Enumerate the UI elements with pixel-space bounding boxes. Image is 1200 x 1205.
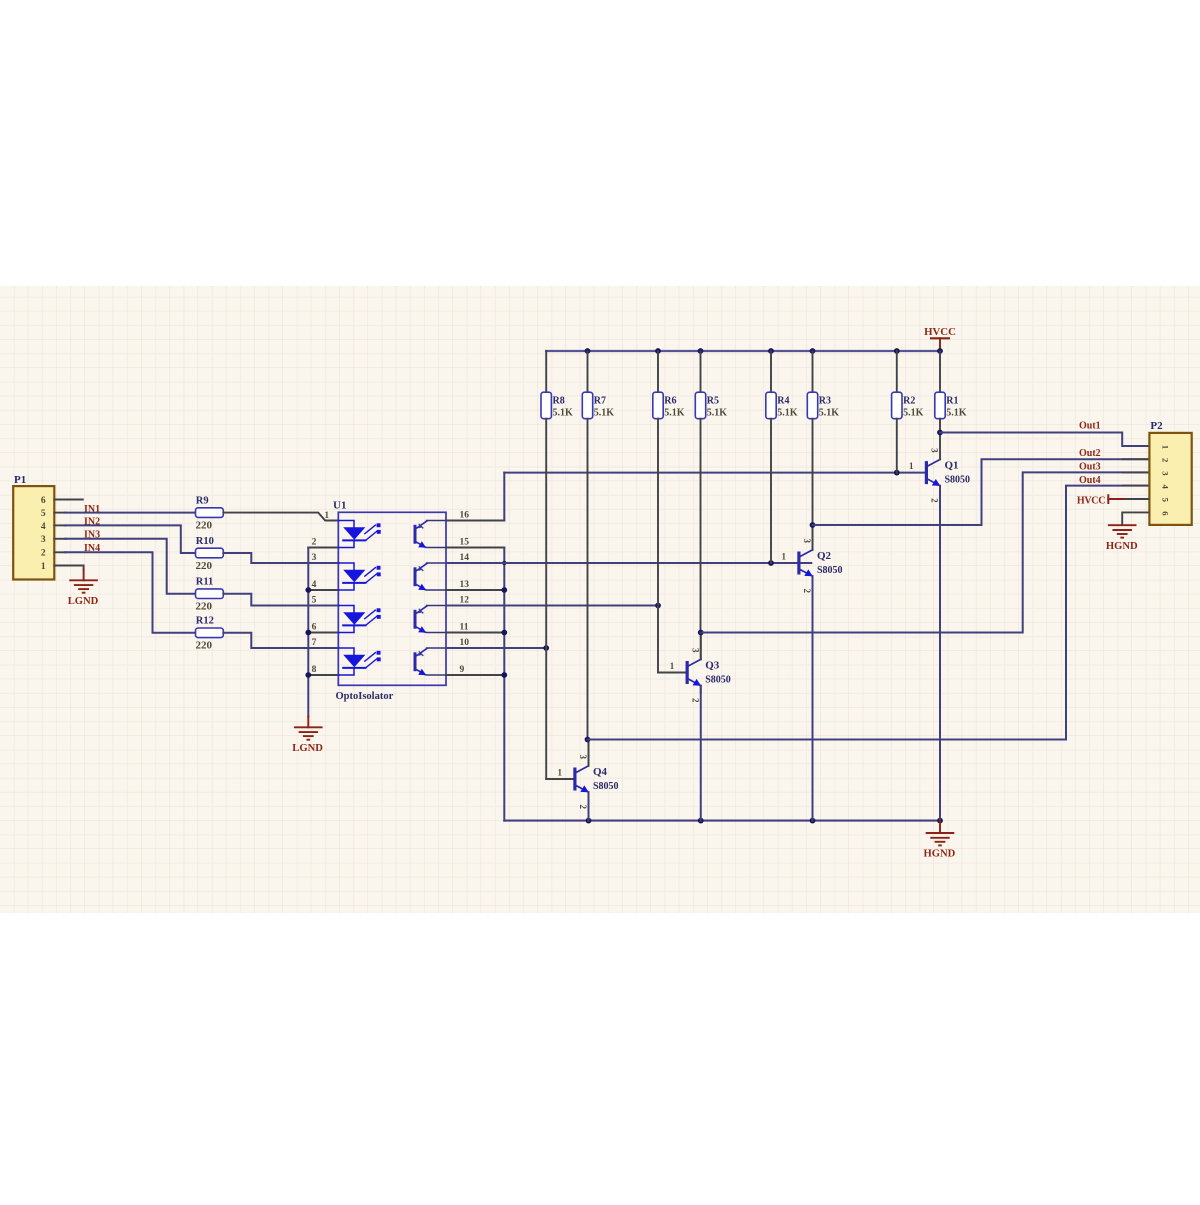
resistor R10 bbox=[196, 536, 224, 572]
wire P1 pin2 stub bbox=[54, 551, 66, 553]
wire R10 to U1 pin3 bbox=[223, 553, 338, 563]
connector P2 bbox=[1149, 420, 1191, 525]
svg-text:15: 15 bbox=[460, 537, 470, 547]
svg-text:10: 10 bbox=[460, 638, 470, 648]
wire P2 pin3 stub bbox=[1123, 471, 1148, 473]
transistor Q1 bbox=[909, 433, 970, 504]
wire R8 column bbox=[545, 419, 547, 779]
wire cathode bus bbox=[307, 548, 309, 717]
svg-text:Out4: Out4 bbox=[1079, 475, 1101, 486]
svg-text:220: 220 bbox=[196, 520, 213, 532]
wire R7 top lead bbox=[587, 351, 589, 392]
ground HGND bbox=[1106, 525, 1138, 552]
svg-text:R4: R4 bbox=[777, 396, 789, 407]
junction pin8 bbox=[305, 672, 311, 678]
svg-text:3: 3 bbox=[802, 539, 812, 544]
svg-text:5.1K: 5.1K bbox=[946, 408, 967, 419]
wire U1 pin12 stub bbox=[446, 605, 504, 607]
svg-text:S8050: S8050 bbox=[817, 565, 843, 576]
connector P1 bbox=[13, 474, 54, 580]
junction R8 row10 bbox=[543, 645, 549, 651]
opto LED channel 1 bbox=[339, 521, 381, 548]
junction rail Q4 bbox=[586, 818, 592, 824]
junction bus x700 bbox=[698, 348, 704, 354]
wire Q3 emitter bbox=[700, 686, 702, 821]
wire P1 pin6 stub bbox=[54, 499, 83, 501]
wire P1 pin4 stub bbox=[54, 524, 66, 526]
wire pin16 riser bbox=[503, 473, 505, 521]
wire IN2 bbox=[65, 525, 196, 553]
svg-text:Q4: Q4 bbox=[593, 766, 608, 778]
svg-text:1: 1 bbox=[1160, 445, 1170, 449]
junction Out4 bbox=[585, 737, 591, 743]
wire U1 pin2 stub bbox=[308, 547, 338, 549]
resistor R7 bbox=[582, 392, 614, 419]
svg-text:1: 1 bbox=[670, 661, 675, 671]
svg-text:R2: R2 bbox=[903, 396, 915, 407]
svg-text:6: 6 bbox=[1160, 511, 1170, 516]
junction bus x771 bbox=[768, 348, 774, 354]
transistor Q3 bbox=[670, 632, 731, 703]
svg-text:Q2: Q2 bbox=[817, 550, 832, 562]
junction Out2 bbox=[810, 522, 816, 528]
svg-text:1: 1 bbox=[782, 551, 787, 561]
optoisolator U1 box bbox=[333, 500, 446, 703]
wire Q1 base net bbox=[504, 472, 925, 474]
svg-text:3: 3 bbox=[41, 535, 46, 545]
wire R3 top lead bbox=[812, 351, 814, 392]
wire IN4 bbox=[65, 552, 196, 633]
wire P2 pin2 stub bbox=[1123, 458, 1148, 460]
svg-text:1: 1 bbox=[909, 461, 914, 471]
svg-text:220: 220 bbox=[196, 640, 213, 652]
wire R3 column bbox=[812, 419, 814, 525]
junction pin4 bbox=[305, 587, 311, 593]
svg-text:HGND: HGND bbox=[1106, 541, 1138, 552]
svg-text:R11: R11 bbox=[196, 577, 214, 588]
wire Out4 bbox=[588, 486, 1149, 740]
resistor R6 bbox=[653, 392, 685, 419]
svg-text:5.1K: 5.1K bbox=[819, 408, 840, 419]
junction Out3 bbox=[698, 630, 704, 636]
junction R2-Q1 base bbox=[894, 470, 900, 476]
wire P1 pin1 stub bbox=[54, 566, 83, 570]
svg-text:220: 220 bbox=[196, 601, 213, 613]
svg-text:3: 3 bbox=[690, 648, 700, 653]
svg-text:S8050: S8050 bbox=[945, 474, 971, 485]
junction rail Q2 bbox=[810, 818, 816, 824]
svg-text:8: 8 bbox=[312, 665, 317, 675]
svg-text:R6: R6 bbox=[664, 396, 676, 407]
svg-text:3: 3 bbox=[930, 448, 940, 453]
wire U1 pin10 stub bbox=[446, 647, 504, 649]
opto LED channel 2 bbox=[339, 563, 381, 590]
svg-text:LGND: LGND bbox=[68, 596, 99, 607]
wire P1 pin3 stub bbox=[54, 538, 66, 540]
wire R6 column bbox=[657, 419, 659, 673]
svg-text:4: 4 bbox=[41, 522, 46, 532]
svg-text:OptoIsolator: OptoIsolator bbox=[336, 691, 394, 702]
svg-text:5.1K: 5.1K bbox=[903, 408, 924, 419]
svg-text:2: 2 bbox=[312, 537, 317, 547]
wire U1 pin6 stub bbox=[308, 632, 338, 634]
svg-text:Out2: Out2 bbox=[1079, 448, 1101, 459]
svg-text:P2: P2 bbox=[1150, 420, 1163, 432]
svg-text:4: 4 bbox=[1160, 484, 1170, 489]
svg-text:14: 14 bbox=[460, 553, 470, 563]
svg-text:3: 3 bbox=[312, 553, 317, 563]
svg-text:220: 220 bbox=[196, 560, 213, 572]
svg-text:5.1K: 5.1K bbox=[707, 408, 728, 419]
svg-text:3: 3 bbox=[1160, 471, 1170, 475]
opto phototransistor channel 2 bbox=[414, 563, 446, 590]
svg-text:4: 4 bbox=[312, 580, 317, 590]
svg-text:HVCC: HVCC bbox=[924, 326, 956, 338]
opto phototransistor channel 1 bbox=[414, 521, 446, 548]
svg-text:13: 13 bbox=[460, 580, 470, 590]
wire IN3 bbox=[65, 539, 196, 594]
wire U1 pin15 stub bbox=[446, 547, 504, 549]
wire Out1 bbox=[940, 433, 1148, 447]
svg-text:6: 6 bbox=[312, 622, 317, 632]
power HVCC bbox=[924, 326, 956, 351]
svg-text:HGND: HGND bbox=[924, 849, 956, 860]
svg-text:S8050: S8050 bbox=[705, 674, 731, 685]
wire R5 top lead bbox=[700, 351, 702, 392]
svg-text:Q1: Q1 bbox=[945, 460, 959, 472]
junction bus x940 bbox=[937, 348, 943, 354]
power HVCC at P2 bbox=[1077, 494, 1149, 506]
wire R1 column bbox=[939, 419, 941, 433]
wire R7 column bbox=[587, 419, 589, 740]
U1 left pin numbers bbox=[312, 510, 330, 675]
wire U1 pin11 stub bbox=[446, 632, 504, 634]
junction pin6 bbox=[305, 630, 311, 636]
wire R8 to Q4 base bbox=[546, 778, 573, 780]
transistor Q4 bbox=[558, 739, 619, 810]
resistor R2 bbox=[892, 392, 924, 419]
wire Q3 collector bbox=[700, 633, 702, 660]
svg-text:5: 5 bbox=[1160, 498, 1170, 502]
svg-text:LGND: LGND bbox=[292, 743, 323, 754]
wire R6 top lead bbox=[657, 351, 659, 392]
resistor R4 bbox=[766, 392, 798, 419]
resistor R12 bbox=[196, 616, 224, 652]
opto LED channel 4 bbox=[339, 648, 381, 675]
svg-text:U1: U1 bbox=[333, 500, 346, 512]
svg-text:R3: R3 bbox=[819, 396, 831, 407]
wire Out2 bbox=[813, 459, 1149, 525]
junction bus x812 bbox=[810, 348, 816, 354]
wire P2 pin4 stub bbox=[1123, 485, 1148, 487]
svg-text:R10: R10 bbox=[196, 536, 214, 547]
wire Q4 emitter bbox=[588, 792, 590, 820]
wire R2 column bbox=[896, 419, 898, 473]
svg-text:16: 16 bbox=[460, 510, 470, 520]
junction Out1 bbox=[937, 430, 943, 436]
U1 right pin numbers bbox=[460, 510, 470, 675]
svg-text:5: 5 bbox=[41, 509, 46, 519]
transistor Q2 bbox=[782, 523, 843, 594]
svg-text:5.1K: 5.1K bbox=[664, 408, 685, 419]
resistor R8 bbox=[541, 392, 573, 419]
svg-text:5.1K: 5.1K bbox=[594, 408, 615, 419]
svg-text:P1: P1 bbox=[14, 474, 26, 486]
resistor R5 bbox=[695, 392, 727, 419]
wire U1 pin13 stub bbox=[446, 589, 504, 591]
wire Q2 collector bbox=[812, 525, 814, 550]
opto phototransistor channel 4 bbox=[414, 648, 446, 675]
svg-text:Out3: Out3 bbox=[1079, 462, 1101, 473]
opto LED channel 3 bbox=[339, 606, 381, 633]
svg-text:HVCC: HVCC bbox=[1077, 495, 1105, 506]
svg-text:5.1K: 5.1K bbox=[777, 408, 798, 419]
svg-text:7: 7 bbox=[312, 638, 317, 648]
wire emitter bus bbox=[503, 548, 505, 821]
junction emitter bus pin9 bbox=[501, 672, 507, 678]
wire R11 to U1 pin5 bbox=[223, 594, 338, 606]
wire IN1 bbox=[65, 512, 196, 514]
wire Q1 emitter bbox=[939, 486, 941, 821]
svg-text:3: 3 bbox=[578, 755, 588, 760]
wire R9 to U1 pin1 bbox=[223, 513, 338, 521]
svg-text:R1: R1 bbox=[946, 396, 958, 407]
svg-text:1: 1 bbox=[558, 767, 563, 777]
svg-text:1: 1 bbox=[325, 510, 330, 520]
wire U1 pin14 stub bbox=[446, 562, 504, 564]
junction emitter bus pin11 bbox=[501, 630, 507, 636]
svg-text:5: 5 bbox=[312, 595, 317, 605]
wire U1 pin4 stub bbox=[308, 589, 338, 591]
resistor R11 bbox=[196, 577, 224, 613]
wire Out3 bbox=[701, 472, 1149, 632]
wire Q4 collector bbox=[588, 740, 590, 766]
svg-text:2: 2 bbox=[802, 589, 812, 594]
svg-text:R5: R5 bbox=[707, 396, 719, 407]
wire R4 top lead bbox=[770, 351, 772, 392]
wire Q2 emitter bbox=[812, 576, 814, 820]
wire U1 pin9 stub bbox=[446, 674, 504, 676]
junction R6 row12 bbox=[655, 603, 661, 609]
svg-text:2: 2 bbox=[1160, 458, 1170, 462]
svg-text:5.1K: 5.1K bbox=[553, 408, 574, 419]
wire HVCC bus bbox=[546, 350, 940, 352]
resistor R9 bbox=[196, 496, 224, 532]
svg-text:Q3: Q3 bbox=[705, 660, 720, 672]
junction R4 row14 bbox=[768, 560, 774, 566]
svg-text:R8: R8 bbox=[553, 396, 565, 407]
wire R12 to U1 pin7 bbox=[223, 633, 338, 648]
svg-text:2: 2 bbox=[930, 498, 940, 503]
wire row10 bbox=[446, 647, 546, 649]
svg-text:Out1: Out1 bbox=[1079, 421, 1101, 432]
wire R4 column bbox=[770, 419, 772, 563]
wire rail to HGND bbox=[939, 821, 941, 833]
junction bus x896 bbox=[894, 348, 900, 354]
svg-text:R7: R7 bbox=[594, 396, 606, 407]
svg-text:6: 6 bbox=[41, 496, 46, 506]
junction bus x587 bbox=[585, 348, 591, 354]
ground LGND bbox=[292, 727, 323, 754]
wire ground rail bbox=[504, 820, 940, 822]
svg-text:9: 9 bbox=[460, 665, 465, 675]
resistor R3 bbox=[807, 392, 839, 419]
wire R2 top lead bbox=[896, 351, 898, 392]
junction bus x658 bbox=[655, 348, 661, 354]
svg-text:12: 12 bbox=[460, 595, 470, 605]
svg-text:11: 11 bbox=[460, 622, 469, 632]
junction rail Q1 HGND bbox=[937, 818, 943, 824]
opto phototransistor channel 3 bbox=[414, 606, 446, 633]
wire bus to LGND bbox=[307, 717, 309, 728]
wire U1 pin16 stub bbox=[446, 520, 504, 522]
svg-text:2: 2 bbox=[578, 805, 588, 810]
wire R6 to Q3 base bbox=[658, 672, 685, 674]
svg-text:1: 1 bbox=[41, 562, 46, 572]
svg-text:S8050: S8050 bbox=[593, 781, 619, 792]
wire P2 pin6 to HGND bbox=[1122, 512, 1148, 524]
wire U1 pin8 stub bbox=[308, 674, 338, 676]
junction rail Q3 bbox=[698, 818, 704, 824]
wire row12 bbox=[446, 605, 658, 607]
svg-text:2: 2 bbox=[690, 698, 700, 703]
wire row14 to Q2 base bbox=[446, 562, 811, 564]
svg-text:2: 2 bbox=[41, 549, 46, 559]
resistor R1 bbox=[935, 392, 967, 419]
wire R1 top lead bbox=[939, 351, 941, 392]
wire to LGND bbox=[83, 570, 85, 581]
wire R5 column bbox=[700, 419, 702, 633]
junction emitter bus pin13 bbox=[501, 587, 507, 593]
wire R8 top lead bbox=[545, 351, 547, 392]
svg-text:R9: R9 bbox=[196, 496, 209, 507]
junction emitter bus row14 bbox=[502, 561, 506, 565]
svg-text:R12: R12 bbox=[196, 616, 214, 627]
ground LGND bbox=[68, 580, 99, 607]
ground HGND bbox=[924, 833, 956, 860]
wire P1 pin5 stub bbox=[54, 512, 66, 514]
